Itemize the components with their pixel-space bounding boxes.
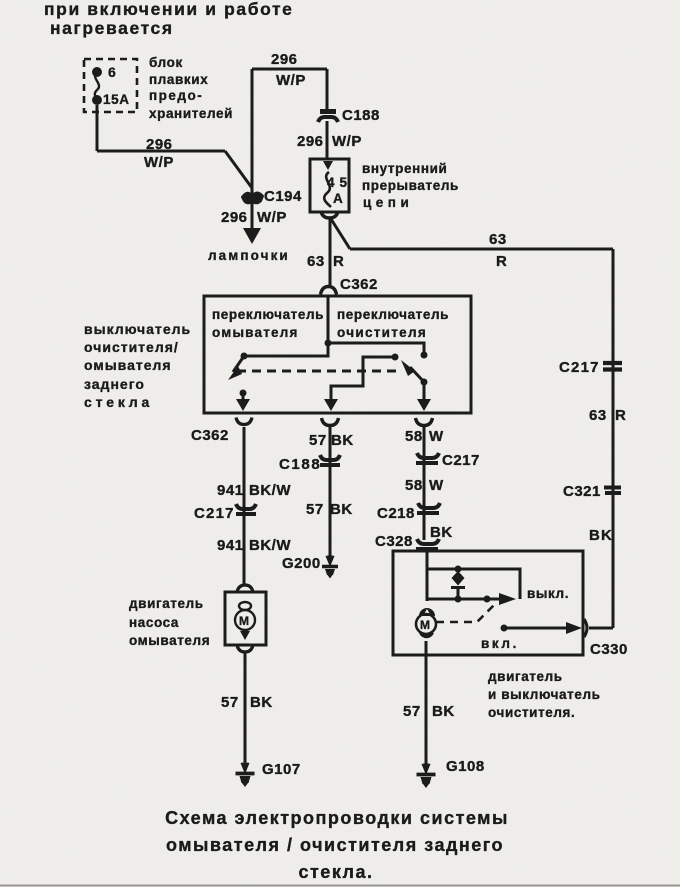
label 296 W/P top xyxy=(271,51,306,89)
arrow mid output xyxy=(324,399,338,411)
run contact line with arrow xyxy=(504,627,566,630)
wire: motor to box bottom xyxy=(425,641,428,655)
label wiper switch xyxy=(337,307,449,340)
arrow washer output xyxy=(236,399,250,411)
connector oval left below box xyxy=(236,418,252,425)
title note text xyxy=(44,0,293,38)
wire: feed to wiper contact xyxy=(328,343,424,352)
fuse element xyxy=(95,72,99,100)
node: breaker bottom xyxy=(455,596,462,603)
bottom oval terminal xyxy=(237,645,253,652)
wire: washer output drop xyxy=(242,393,245,399)
label 57 BK mid lower xyxy=(306,501,353,518)
label 296 W/P mid-left xyxy=(144,136,174,171)
wire: horizontal 296 W/P from fuse xyxy=(97,150,225,153)
node: run contact xyxy=(501,625,508,632)
label 57 BK washer xyxy=(221,694,273,711)
circuit breaker box xyxy=(310,159,349,212)
label 63 R right-top xyxy=(489,231,507,270)
top oval terminal xyxy=(237,585,253,592)
node: wiper feed contact xyxy=(421,352,428,359)
node: feed junction xyxy=(325,340,332,347)
fuse terminal bottom xyxy=(92,95,102,105)
left caption: rear window switch xyxy=(84,321,191,410)
connector C217 left symbol xyxy=(236,504,256,514)
bottom caption xyxy=(165,808,509,882)
wire: right output down into motor box xyxy=(423,427,426,540)
wire: diagonal into C194 xyxy=(225,151,252,188)
caption wiper motor xyxy=(488,669,601,720)
connector C217 right symbol xyxy=(416,453,439,463)
wire: wiper contact to mid output xyxy=(331,357,395,399)
wiper motor box xyxy=(393,551,583,655)
breaker input arrow xyxy=(323,161,333,170)
arrow right output xyxy=(417,399,431,411)
connector C362 oval top xyxy=(321,287,337,295)
connector C217 far right symbol xyxy=(603,361,622,365)
label 941 BK/W upper xyxy=(217,482,291,499)
park switch blade arrow xyxy=(487,598,499,601)
connector C188 mid symbol xyxy=(320,455,340,465)
ground G108 xyxy=(417,763,436,788)
wire: breaker down to C362 xyxy=(329,219,332,285)
wire: top horizontal 296 W/P xyxy=(252,68,327,71)
node: wiper output contact xyxy=(392,354,399,361)
wire: C188 to breaker xyxy=(326,121,329,160)
motor breaker element xyxy=(452,571,465,586)
connector C330 bracket xyxy=(584,619,587,637)
washer pump motor xyxy=(225,585,266,652)
node: wiper pivot xyxy=(421,379,428,386)
fuse block caption xyxy=(149,55,233,121)
ground G107 xyxy=(236,762,255,787)
breaker value 4 5 A xyxy=(327,175,348,206)
wire: long horizontal 63 R xyxy=(350,248,613,251)
label washer switch xyxy=(212,307,324,340)
wire: feed to washer pivot xyxy=(244,343,328,356)
connector C194 symbol xyxy=(242,193,263,204)
fuse terminal top xyxy=(92,67,102,77)
caption washer motor xyxy=(129,596,210,648)
label 296 W/P above breaker xyxy=(297,133,362,150)
wire: upper feed horizontal xyxy=(427,569,520,599)
washer switch arm xyxy=(233,356,244,372)
connector C321 symbol xyxy=(604,488,621,494)
wire: left output down to washer motor xyxy=(243,427,246,585)
wire: entry vertical inside xyxy=(426,551,429,601)
wire: park contact line xyxy=(427,598,492,601)
connector oval mid below box xyxy=(322,418,339,426)
labels right branch: C217, 63 R, C321, BK xyxy=(603,363,622,370)
breaker bottom oval xyxy=(321,212,338,219)
wire: right vertical top xyxy=(326,69,329,109)
wire: right vertical branch xyxy=(612,249,615,628)
label 63 R above C362 xyxy=(307,253,344,270)
label 941 BK/W lower xyxy=(217,537,291,554)
fuse labels xyxy=(103,64,130,107)
wire: mid output to G200 xyxy=(329,427,332,557)
label 58 W right xyxy=(405,428,444,445)
ground G200 xyxy=(322,555,338,579)
mechanical link dashed xyxy=(237,370,398,373)
dashed link to park switch xyxy=(436,602,497,622)
breaker element xyxy=(324,172,331,207)
connector C188 top symbol xyxy=(318,112,338,123)
wiper motor M xyxy=(416,614,436,634)
label 58 W lower xyxy=(405,477,444,494)
node: washer pivot xyxy=(241,353,248,360)
inner bottom arrow xyxy=(240,631,250,640)
wire: wiper motor to G108 xyxy=(425,655,428,764)
wire: wiper pivot drop xyxy=(423,382,426,399)
node: park contact xyxy=(484,596,491,603)
wire: left vertical to C194 xyxy=(251,69,254,231)
bottom scan line xyxy=(0,885,680,887)
node: breaker top xyxy=(455,566,462,573)
switch assembly box xyxy=(204,296,471,413)
wire: from fuse down xyxy=(96,105,99,151)
inner top cap xyxy=(239,602,251,610)
connector C218 symbol xyxy=(417,503,440,513)
node: washer output contact xyxy=(240,390,247,397)
breaker caption xyxy=(362,161,459,210)
label 57 BK wiper xyxy=(403,703,455,720)
connector C328 symbol xyxy=(416,539,439,549)
wiper switch arm xyxy=(410,367,424,382)
motor box xyxy=(225,592,266,645)
label 296 W/P below C194 xyxy=(221,209,287,226)
fuse block F6 (dashed box) xyxy=(84,59,137,112)
motor circle M xyxy=(235,610,255,630)
wire: breaker to right branch diagonal xyxy=(331,219,350,249)
motor feed arrow xyxy=(419,608,435,616)
label 57 BK mid xyxy=(309,432,354,449)
wire: washer motor to G107 xyxy=(244,652,247,762)
wire: feed into switch box xyxy=(327,296,330,343)
wire: into C330 xyxy=(589,627,613,630)
arrow to lamps xyxy=(243,228,261,244)
motor bottom arrow xyxy=(419,633,434,638)
connector oval right below box xyxy=(416,418,433,426)
